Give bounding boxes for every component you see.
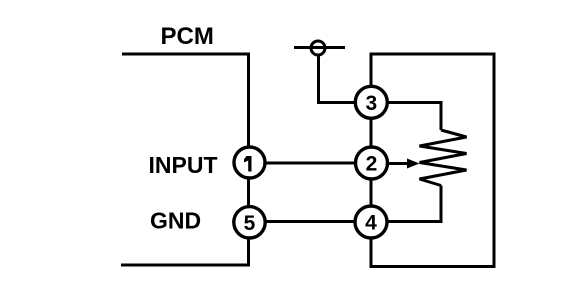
svg-text:4: 4 — [365, 212, 377, 235]
svg-text:INPUT: INPUT — [149, 152, 218, 178]
svg-text:PCM: PCM — [161, 23, 214, 50]
svg-text:3: 3 — [365, 92, 377, 115]
svg-text:5: 5 — [244, 212, 256, 235]
svg-text:2: 2 — [366, 153, 378, 176]
svg-text:GND: GND — [150, 208, 201, 234]
